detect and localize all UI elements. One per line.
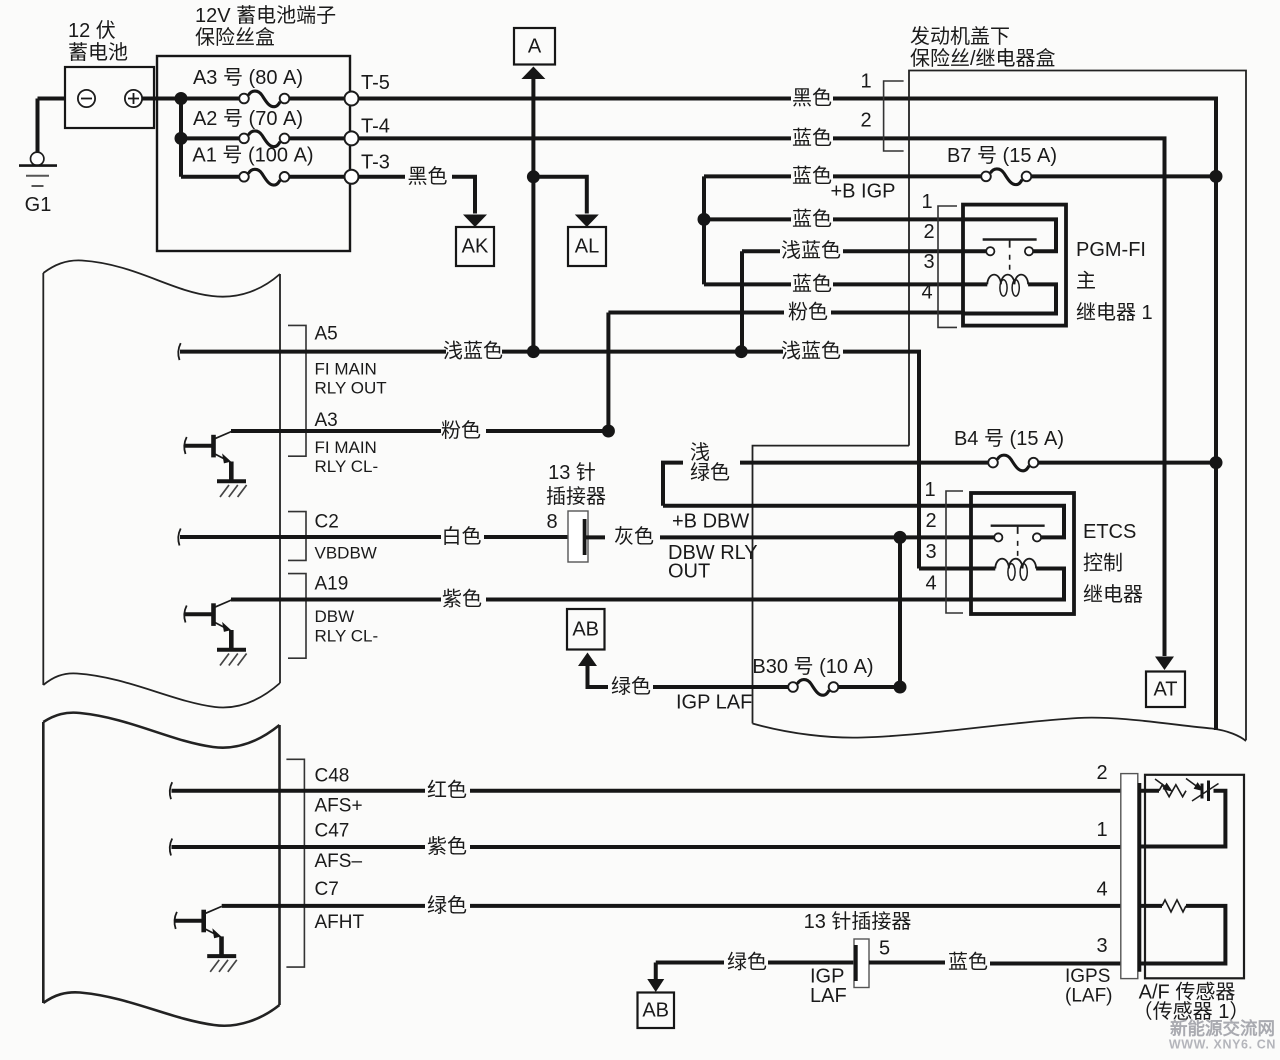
svg-text:AB: AB (642, 1000, 669, 1022)
svg-text:AFS+: AFS+ (315, 795, 363, 816)
svg-text:3: 3 (1096, 935, 1107, 957)
pin bracket A19 (288, 574, 306, 659)
svg-text:AL: AL (575, 236, 599, 258)
wire A3 pink row (231, 429, 441, 433)
svg-text:蓝色: 蓝色 (792, 207, 832, 230)
wire A5 light-blue row (281, 350, 446, 354)
wire A2 feed (181, 136, 239, 140)
node B30 junction (894, 681, 907, 694)
arrow to connector AK (463, 215, 487, 228)
wire PGM-FI pin3 blue (704, 282, 791, 286)
node DBW/B30 junction (894, 531, 907, 544)
transistor Q3 AFHT (175, 906, 237, 972)
wire branch to AL (533, 177, 586, 214)
svg-text:A19: A19 (315, 574, 349, 595)
connector AB lower (638, 993, 675, 1029)
svg-text:2: 2 (860, 110, 871, 132)
wire bus vertical right (1214, 176, 1218, 730)
svg-text:2: 2 (923, 221, 934, 243)
transistor Q1 FI MAIN RLY (184, 432, 246, 498)
connector A (514, 28, 555, 65)
svg-text:蓝色: 蓝色 (792, 272, 832, 295)
connector AL (568, 227, 606, 266)
wire +B IGP blue row (704, 174, 791, 178)
svg-text:蓝色: 蓝色 (792, 164, 832, 187)
pin bracket C48/C47/C7 (286, 759, 304, 967)
node A5/pin2 junction (735, 345, 748, 358)
wire ETCS pin3 row (919, 567, 973, 571)
svg-text:绿色: 绿色 (611, 675, 651, 698)
svg-text:RLY OUT: RLY OUT (315, 379, 387, 398)
svg-text:A1 号 (100 A): A1 号 (100 A) (192, 145, 313, 167)
svg-text:+B IGP: +B IGP (830, 181, 895, 203)
relay coil (963, 282, 987, 286)
wire A19 purple row (231, 598, 441, 602)
svg-text:新能源交流网: 新能源交流网 (1170, 1019, 1275, 1039)
sensor heater element (1140, 904, 1163, 908)
wire green IGP LAF row (588, 666, 609, 688)
svg-text:B30 号 (10 A): B30 号 (10 A) (752, 656, 873, 678)
svg-text:AT: AT (1153, 679, 1177, 701)
terminal T-4 (345, 131, 359, 145)
pin A5 stub (178, 343, 180, 360)
svg-text:1: 1 (860, 71, 871, 93)
svg-text:B7 号 (15 A): B7 号 (15 A) (947, 145, 1057, 167)
battery positive terminal (125, 90, 142, 107)
svg-text:13 针: 13 针 (548, 461, 596, 484)
svg-text:蓝色: 蓝色 (948, 951, 988, 974)
svg-text:12V 蓄电池端子: 12V 蓄电池端子 (195, 4, 336, 27)
svg-text:粉色: 粉色 (788, 301, 828, 324)
fuse A2 (70 A) (239, 131, 289, 147)
pin C47 stub (170, 839, 172, 856)
relay contact (switch) (971, 506, 1064, 538)
arrow to connector AL (575, 215, 599, 228)
svg-text:粉色: 粉色 (441, 419, 481, 442)
svg-text:T-3: T-3 (361, 152, 390, 174)
svg-text:WWW. XNY6. CN: WWW. XNY6. CN (1169, 1038, 1276, 1052)
pin C2 stub (178, 529, 180, 546)
transistor Q2 DBW RLY (184, 600, 246, 666)
ECM block 2 outline (43, 713, 279, 748)
PGM-FI relay pin bracket (938, 206, 957, 327)
terminal T-3 (345, 170, 359, 184)
wire PGM-FI pin4 pink (608, 311, 784, 315)
pin bracket C2 (288, 512, 306, 561)
svg-text:C2: C2 (315, 511, 339, 532)
ground G1 (19, 152, 57, 216)
svg-text:T-5: T-5 (361, 72, 390, 94)
sensor cell element (1140, 789, 1160, 793)
svg-text:A: A (528, 36, 542, 58)
svg-text:浅蓝色: 浅蓝色 (443, 340, 503, 363)
wire battery positive to fuses (142, 97, 239, 101)
wire AT branch arrow (1155, 657, 1174, 671)
svg-text:OUT: OUT (668, 561, 710, 583)
svg-text:紫色: 紫色 (427, 835, 467, 858)
svg-text:8: 8 (546, 511, 557, 533)
arrow to AB lower (647, 979, 664, 992)
wire C48 red row (280, 789, 425, 793)
13-pin connector pin 5 (854, 939, 869, 988)
svg-text:黑色: 黑色 (408, 165, 448, 188)
svg-text:浅蓝色: 浅蓝色 (781, 340, 841, 363)
wire light-green to B4 (663, 463, 683, 506)
svg-text:G1: G1 (25, 194, 52, 216)
fuse B7 (15 A) (981, 169, 1031, 185)
svg-text:+B DBW: +B DBW (672, 511, 749, 533)
wire B30 to junction (839, 685, 901, 689)
battery negative terminal (78, 90, 95, 107)
svg-text:发动机盖下: 发动机盖下 (910, 25, 1010, 48)
wire C47 purple row (280, 845, 425, 849)
pin bracket A5/A3 (288, 325, 306, 456)
fuse box outline (157, 56, 350, 251)
node junction A3/A2 (175, 92, 188, 105)
wire C2 white row (281, 535, 441, 539)
svg-text:灰色: 灰色 (614, 525, 654, 548)
svg-text:主: 主 (1076, 270, 1096, 293)
terminal T-5 (345, 92, 359, 106)
svg-text:2: 2 (925, 510, 936, 532)
svg-text:FI MAIN: FI MAIN (315, 438, 377, 457)
svg-text:继电器 1: 继电器 1 (1076, 301, 1153, 324)
wire sensor heater loop (1140, 906, 1226, 964)
svg-text:蓄电池: 蓄电池 (68, 41, 128, 64)
svg-text:12 伏: 12 伏 (68, 19, 116, 42)
svg-text:紫色: 紫色 (442, 588, 482, 611)
13-pin connector pin 8 (568, 511, 588, 562)
svg-text:(LAF): (LAF) (1065, 985, 1113, 1006)
wire B30 vertical to pin2 (898, 537, 902, 687)
svg-text:A3 号 (80 A): A3 号 (80 A) (193, 67, 303, 89)
wire green row to 13-pin (654, 963, 658, 980)
svg-text:AFS–: AFS– (315, 851, 363, 872)
node A3/pin4 junction (602, 425, 615, 438)
svg-text:绿色: 绿色 (690, 461, 730, 484)
svg-text:PGM-FI: PGM-FI (1076, 239, 1146, 261)
ECM block 1 outline (43, 260, 280, 296)
svg-text:C47: C47 (315, 821, 350, 842)
svg-text:13 针插接器: 13 针插接器 (804, 910, 912, 933)
wire blue row to IGPS (869, 961, 945, 965)
svg-text:插接器: 插接器 (546, 485, 606, 508)
svg-text:LAF: LAF (810, 985, 847, 1007)
svg-text:继电器: 继电器 (1083, 583, 1143, 606)
relay contact (switch) (963, 219, 1056, 251)
arrow to AB upper (578, 653, 597, 667)
svg-text:保险丝/继电器盒: 保险丝/继电器盒 (910, 47, 1056, 70)
node B4 bus junction (1210, 456, 1223, 469)
svg-text:DBW: DBW (315, 607, 355, 626)
svg-text:IGPS: IGPS (1065, 966, 1110, 987)
svg-text:VBDBW: VBDBW (315, 543, 377, 562)
wire sensor cell loop (1140, 791, 1226, 847)
wire A2 to T-4 (290, 136, 345, 140)
pin C48 stub (170, 782, 172, 799)
wire B4 to bus (1039, 461, 1217, 465)
svg-text:A2 号 (70 A): A2 号 (70 A) (193, 108, 303, 130)
A/F sensor connector bar (1121, 774, 1138, 979)
svg-text:RLY CL-: RLY CL- (315, 457, 379, 476)
wire A1 to T-3 (290, 175, 345, 179)
arrow to connector A (521, 67, 545, 80)
svg-text:白色: 白色 (442, 525, 482, 548)
svg-text:绿色: 绿色 (727, 951, 767, 974)
wire T-4 blue row (359, 136, 792, 140)
A/F sensor mating line (1138, 783, 1142, 972)
wire pin2 to A5 row vertical (740, 251, 744, 351)
node A5/A junction (527, 345, 540, 358)
svg-text:FI MAIN: FI MAIN (315, 360, 377, 379)
svg-text:红色: 红色 (427, 779, 467, 802)
svg-text:蓝色: 蓝色 (792, 126, 832, 149)
fuse A3 (80 A) (239, 91, 289, 107)
svg-text:1: 1 (1096, 819, 1107, 841)
svg-text:保险丝盒: 保险丝盒 (195, 26, 275, 49)
svg-text:4: 4 (921, 282, 932, 304)
fuse B30 (10 A) (788, 680, 838, 696)
svg-text:T-4: T-4 (361, 116, 390, 138)
fuse A1 (100 A) (239, 169, 289, 185)
svg-text:B4 号 (15 A): B4 号 (15 A) (954, 428, 1064, 450)
node A/AL junction (527, 170, 540, 183)
svg-text:AFHT: AFHT (315, 912, 365, 933)
wire A branch vertical (531, 79, 535, 352)
wire T-5 black row (359, 97, 792, 101)
svg-text:5: 5 (879, 938, 890, 960)
svg-text:C48: C48 (315, 765, 350, 786)
junction bus vertical (179, 99, 183, 177)
wire PGM-FI pin2 light-blue (742, 249, 780, 253)
wire gray row to ETCS pin2 (587, 535, 606, 539)
wire PGM-FI pin1 blue (704, 217, 791, 221)
wire A1 feed (181, 175, 239, 179)
svg-text:A3: A3 (315, 410, 338, 431)
svg-text:绿色: 绿色 (427, 894, 467, 917)
svg-text:3: 3 (925, 541, 936, 563)
svg-text:C7: C7 (315, 879, 339, 900)
svg-text:2: 2 (1096, 762, 1107, 784)
svg-text:AB: AB (572, 619, 599, 641)
svg-text:浅: 浅 (690, 441, 710, 464)
svg-text:AK: AK (462, 236, 489, 258)
battery B box (65, 67, 154, 128)
svg-text:3: 3 (923, 251, 934, 273)
A/F sensor outer box (1145, 775, 1244, 979)
connector AT (1146, 672, 1185, 708)
relay outer box (963, 205, 1066, 326)
svg-text:黑色: 黑色 (792, 87, 832, 110)
connector AK (456, 227, 494, 266)
relay coil (971, 567, 995, 571)
connector AB upper (567, 609, 605, 650)
ETCS relay pin bracket (946, 491, 963, 613)
wire A3 to T-5 (290, 97, 345, 101)
fuse B4 (15 A) (988, 455, 1038, 471)
svg-text:RLY CL-: RLY CL- (315, 627, 379, 646)
node PGM pin1 junction (698, 213, 711, 226)
svg-text:4: 4 (1096, 879, 1107, 901)
wire T-3 black row (359, 175, 406, 179)
svg-text:1: 1 (921, 191, 932, 213)
wire C7 green row (222, 904, 425, 908)
pin bracket rows 1-2 (884, 81, 904, 151)
svg-text:浅蓝色: 浅蓝色 (781, 239, 841, 262)
wire pin4 to A3 row vertical (606, 313, 610, 432)
under-hood fuse/relay box outline (909, 71, 1246, 741)
svg-text:A5: A5 (315, 324, 338, 345)
wire ETCS pin1 row (663, 504, 973, 508)
wire B7 to bus (1032, 174, 1217, 178)
node B7 bus junction (1210, 170, 1223, 183)
svg-text:ETCS: ETCS (1083, 521, 1136, 543)
relay outer box (971, 493, 1074, 614)
wire +B IGP vertical branch (702, 176, 706, 284)
svg-text:1: 1 (924, 479, 935, 501)
wire battery negative to ground (38, 97, 67, 101)
svg-text:控制: 控制 (1083, 552, 1123, 575)
svg-text:IGP LAF: IGP LAF (676, 692, 752, 714)
svg-text:4: 4 (925, 573, 936, 595)
